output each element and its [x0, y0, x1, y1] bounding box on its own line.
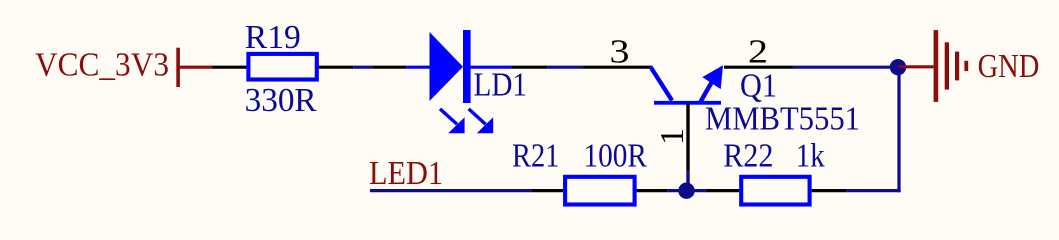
svg-text:2: 2	[748, 34, 768, 71]
transistor Q1 emitter line	[700, 83, 712, 104]
wire junction to R22	[687, 189, 706, 192]
power port VCC_3V3 bar	[176, 48, 180, 87]
wire Q1 to GND junction	[793, 66, 899, 69]
ground GND bar 1	[934, 30, 939, 102]
wire right vertical	[897, 67, 900, 192]
LED LD1 anode lead	[406, 66, 430, 69]
svg-text:R19: R19	[245, 19, 301, 56]
transistor Q1 emitter arrowhead	[702, 65, 723, 89]
LED LD1 triangle	[430, 32, 464, 101]
svg-text:VCC_3V3: VCC_3V3	[35, 47, 169, 84]
ground GND bar 4	[964, 61, 968, 71]
resistor R21 pin 1 wire	[531, 189, 563, 192]
transistor Q1 base bar	[654, 101, 721, 105]
ground GND bar 2	[945, 42, 949, 89]
resistor R22 pin 1 wire	[706, 189, 739, 192]
svg-text:1: 1	[654, 128, 691, 145]
transistor Q1 pin 1 vertical wire	[686, 104, 689, 171]
svg-text:GND: GND	[978, 48, 1040, 85]
wire segment navy	[547, 66, 583, 69]
svg-text:3: 3	[610, 34, 630, 71]
svg-text:1k: 1k	[796, 137, 825, 174]
junction dot bottom	[678, 183, 694, 199]
svg-text:R22: R22	[723, 137, 773, 174]
wire LED1 net	[370, 189, 531, 192]
resistor R21 pin 2 wire	[637, 189, 668, 192]
transistor Q1 collector diagonal	[650, 67, 672, 101]
svg-text:330R: 330R	[245, 82, 317, 119]
svg-text:R21: R21	[512, 137, 559, 174]
resistor R22 pin 2 wire	[812, 189, 847, 192]
svg-text:LED1: LED1	[369, 155, 443, 192]
svg-text:MMBT5551: MMBT5551	[705, 101, 860, 138]
LED LD1 arrow 2	[469, 109, 494, 133]
junction dot top right	[890, 59, 906, 75]
wire segment	[353, 66, 373, 69]
svg-text:100R: 100R	[584, 137, 648, 174]
resistor R21 body	[565, 177, 635, 205]
svg-text:LD1: LD1	[474, 67, 528, 104]
ground GND bar 3	[955, 52, 959, 81]
transistor Q1 emitter pin wire	[724, 66, 793, 69]
LED LD1 cathode bar	[463, 30, 471, 103]
wire bottom right horizontal	[847, 189, 901, 192]
wire segment black	[373, 66, 406, 69]
wire VCC to R19	[213, 66, 247, 69]
LED LD1 cathode lead	[471, 66, 512, 69]
LED LD1 arrow 1	[440, 109, 465, 133]
wire R19 to LED	[319, 66, 354, 69]
resistor R19 body	[248, 54, 316, 80]
ground GND pin	[898, 65, 934, 68]
resistor R22 body	[741, 177, 809, 205]
transistor Q1 base pin wire	[584, 66, 652, 69]
wire to junction	[667, 189, 686, 192]
wire Q1 pin1 to junction	[686, 171, 689, 189]
power port VCC_3V3 pin	[178, 66, 213, 69]
wire LED to Q1 black	[511, 66, 547, 69]
svg-text:Q1: Q1	[740, 68, 777, 105]
